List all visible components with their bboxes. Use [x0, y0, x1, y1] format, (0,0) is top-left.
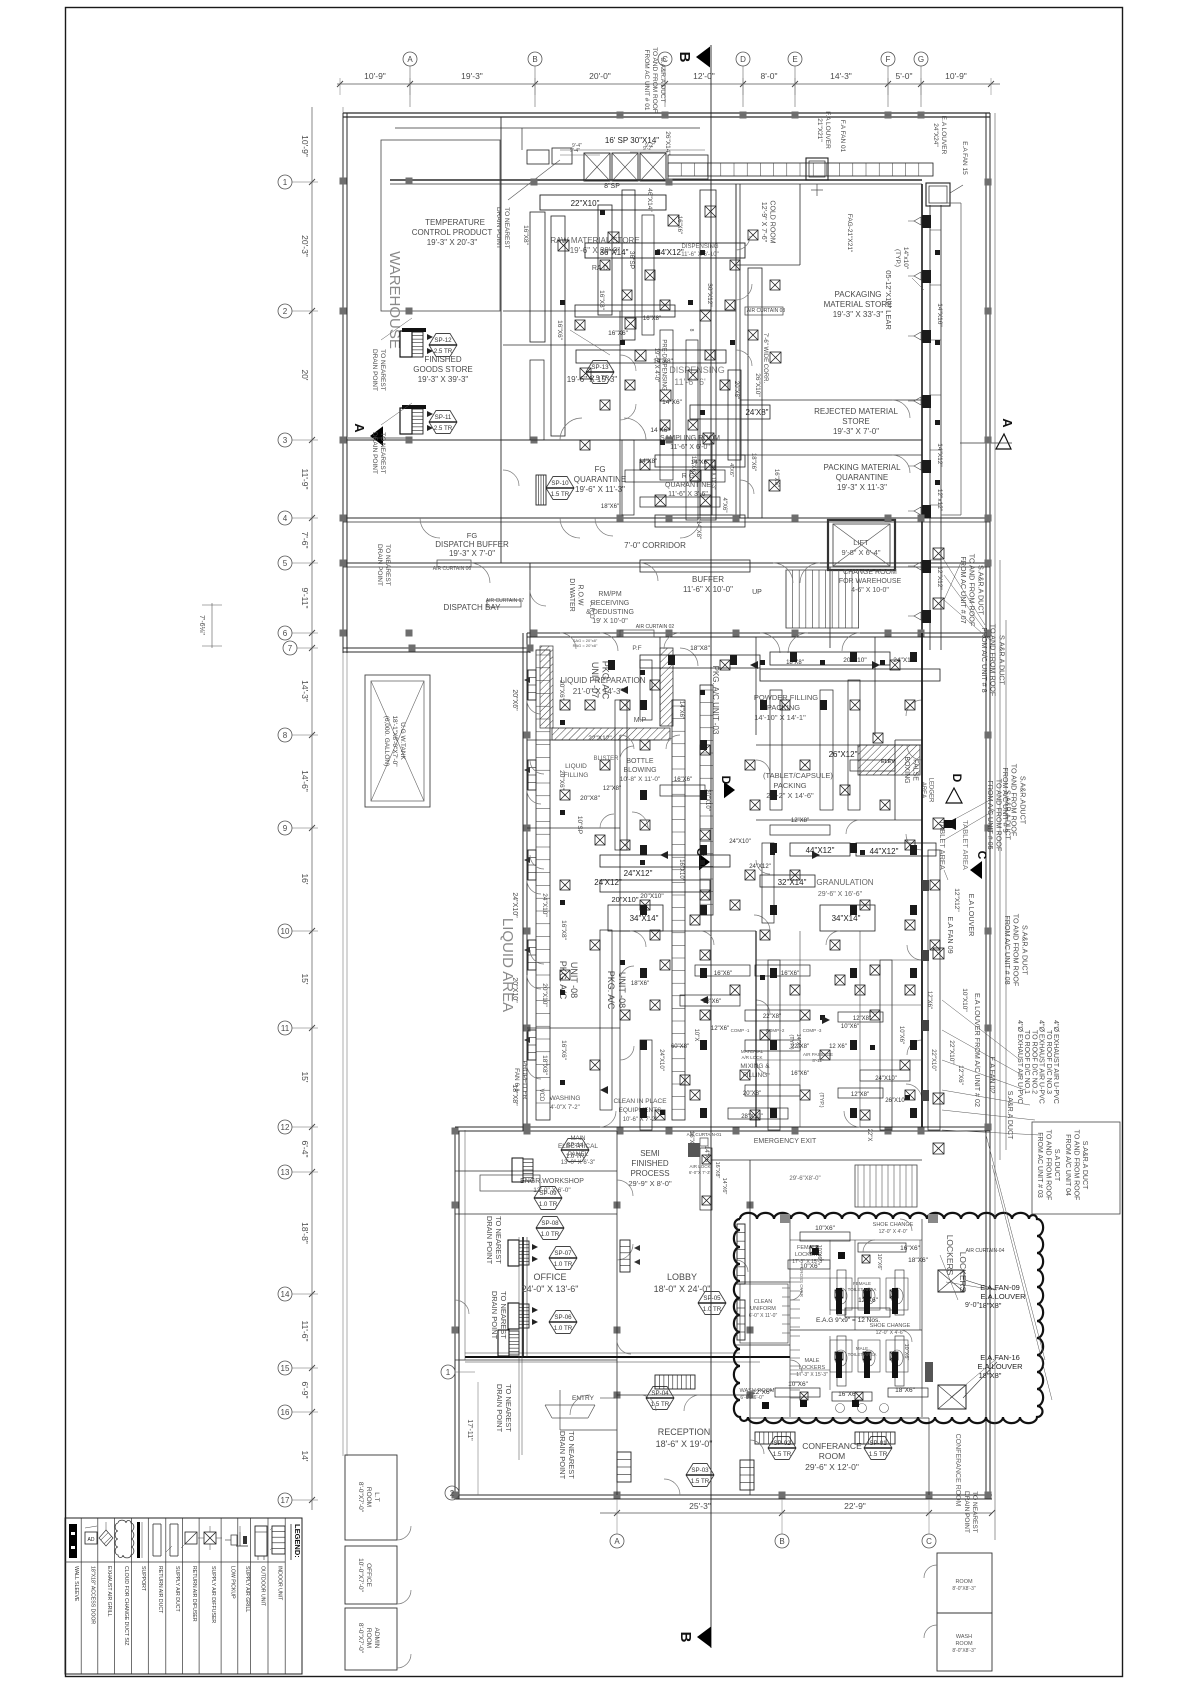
svg-text:26"X12": 26"X12" [829, 750, 858, 759]
fan coil unit west 1 [400, 331, 412, 357]
svg-text:(TYP.): (TYP.) [894, 249, 901, 267]
svg-text:25'-3": 25'-3" [689, 1501, 711, 1511]
black junction caps [608, 660, 615, 670]
section marker C left [699, 854, 710, 871]
svg-text:12"X8": 12"X8" [791, 818, 809, 824]
sp-12 tag [429, 334, 457, 357]
svg-text:ROOM: ROOM [365, 1487, 372, 1507]
svg-text:14': 14' [300, 1450, 310, 1461]
cold room walls [735, 184, 737, 265]
svg-text:S.A&R.A DUCT: S.A&R.A DUCT [1081, 1141, 1088, 1190]
svg-text:12"X6": 12"X6" [926, 991, 932, 1009]
svg-text:18"X8": 18"X8" [541, 1055, 548, 1075]
svg-text:12"X8": 12"X8" [603, 786, 621, 792]
svg-text:22"X12": 22"X12" [588, 735, 612, 742]
west grille arrows [524, 677, 530, 683]
east shaft boundary [960, 203, 962, 515]
svg-text:6: 6 [283, 629, 288, 638]
svg-text:TO AND FROM ROOF: TO AND FROM ROOF [1045, 1130, 1052, 1201]
svg-text:SP-12: SP-12 [434, 337, 452, 344]
middle door arcs [600, 633, 618, 651]
wall conference top [750, 1417, 929, 1419]
entry porch [559, 1390, 561, 1430]
svg-text:TOILET AREA: TOILET AREA [848, 1287, 877, 1292]
svg-text:15: 15 [281, 1364, 290, 1373]
svg-text:E.A FAN 15: E.A FAN 15 [961, 141, 968, 175]
svg-text:CONFERANCE: CONFERANCE [802, 1441, 862, 1451]
wash basins [836, 1404, 845, 1413]
svg-text:14"X12": 14"X12" [936, 443, 943, 467]
wall row12 liquid bottom [455, 1126, 990, 1128]
svg-text:VCD: VCD [538, 1089, 544, 1102]
svg-text:AIR CURTAIN-04: AIR CURTAIN-04 [966, 1248, 1005, 1254]
upper cluster extra ducts [598, 205, 612, 315]
entry canopy [545, 1404, 595, 1406]
wall row1 [390, 179, 922, 181]
svg-text:FOR WAREHOUSE: FOR WAREHOUSE [839, 578, 902, 585]
svg-text:18'-0" X 24'-0": 18'-0" X 24'-0" [654, 1284, 711, 1294]
section marker A left [370, 426, 383, 446]
svg-text:8'-0"X7'-0": 8'-0"X7'-0" [357, 1482, 364, 1513]
svg-text:6'-4": 6'-4" [300, 1141, 310, 1158]
upper cluster extra xboxes [600, 260, 610, 270]
svg-text:SP-11: SP-11 [435, 414, 452, 421]
section marker D left [724, 782, 735, 799]
svg-text:S.A&R.A DUCT: S.A&R.A DUCT [1003, 790, 1012, 841]
svg-text:16"X6": 16"X6" [773, 469, 779, 487]
svg-text:14"X8": 14"X8" [639, 459, 657, 465]
svg-text:22"X10": 22"X10" [948, 1040, 955, 1064]
svg-text:DRAIN POINT: DRAIN POINT [485, 1216, 494, 1265]
svg-text:1.5 TR: 1.5 TR [773, 1451, 792, 1458]
svg-text:E.A LOUVER: E.A LOUVER [967, 894, 976, 937]
svg-text:TO NEAREST: TO NEAREST [504, 1384, 513, 1432]
fa louver unit [806, 158, 828, 180]
east vertical duct [929, 205, 931, 650]
svg-text:TO AND FROM ROOF: TO AND FROM ROOF [995, 779, 1004, 852]
svg-text:SHOE CHANGE: SHOE CHANGE [873, 1222, 914, 1228]
svg-text:19'-3" X 11'-3": 19'-3" X 11'-3" [837, 483, 887, 492]
svg-text:8'-0": 8'-0" [761, 71, 778, 81]
stairs lower [855, 1165, 917, 1207]
svg-text:FROM AC UNIT # 01: FROM AC UNIT # 01 [643, 50, 650, 111]
wall row3 [343, 439, 922, 441]
svg-text:TO NEAREST: TO NEAREST [971, 1491, 978, 1532]
wall row6 liquid top [527, 632, 990, 634]
svg-text:RM/PM: RM/PM [598, 591, 622, 598]
bottom grid bubbles [616, 1499, 618, 1534]
svg-text:11'-6" 6': 11'-6" 6' [674, 377, 706, 387]
svg-text:A: A [1000, 418, 1015, 428]
svg-text:14"X16": 14"X16" [936, 303, 943, 327]
svg-text:RAW MATERIAL STORE: RAW MATERIAL STORE [550, 236, 639, 245]
change room wall [829, 567, 831, 648]
svg-text:14"X6": 14"X6" [721, 1178, 727, 1195]
small dim 7-6 left [211, 603, 213, 648]
svg-text:5'-0": 5'-0" [896, 71, 913, 81]
lt room [345, 1455, 397, 1540]
svg-text:SUPPLY AIR DIFFUSER: SUPPLY AIR DIFFUSER [210, 1566, 216, 1623]
legend box [65, 1518, 302, 1674]
svg-text:24"X10": 24"X10" [875, 1076, 897, 1082]
x dampers upper [558, 240, 569, 251]
fan coil unit corridor [536, 475, 546, 505]
svg-text:DRAIN POINT: DRAIN POINT [558, 1431, 567, 1480]
svg-text:26"X10": 26"X10" [885, 1098, 907, 1104]
svg-text:DI WATER: DI WATER [568, 578, 575, 611]
svg-text:4: 4 [283, 514, 288, 523]
lockers v ducts [837, 1270, 846, 1315]
svg-text:1.0 TR: 1.0 TR [539, 1201, 558, 1208]
svg-text:18"X6": 18"X6" [908, 1257, 928, 1264]
svg-text:20"X10": 20"X10" [541, 983, 548, 1007]
fan coil unit west 2 [400, 408, 412, 434]
svg-text:TO ROOF D/C NO.2: TO ROOF D/C NO.2 [1030, 1030, 1037, 1094]
svg-text:PRE-DISPENSING: PRE-DISPENSING [661, 339, 667, 391]
svg-text:18"X8": 18"X8" [979, 1371, 1002, 1380]
lower block extra arcs [617, 1180, 633, 1196]
svg-text:9'-11": 9'-11" [300, 587, 310, 608]
svg-text:7'-0" CORRIDOR: 7'-0" CORRIDOR [624, 541, 686, 550]
left boundary extension line [342, 107, 344, 1456]
svg-text:DRAIN POINT: DRAIN POINT [376, 544, 383, 586]
svg-text:17: 17 [281, 1496, 290, 1505]
sp14 sp09 tags [561, 1139, 589, 1162]
duct 24x8 [690, 405, 770, 419]
office block west wall [454, 1131, 456, 1499]
svg-text:8: 8 [283, 731, 288, 740]
reception fixtures [655, 1375, 695, 1389]
svg-text:SP-06: SP-06 [554, 1314, 572, 1321]
svg-text:24"X12": 24"X12" [624, 869, 653, 878]
svg-text:TO ROOF D/C NO.1: TO ROOF D/C NO.1 [1023, 1030, 1030, 1094]
svg-text:OUTDOOR UNIT: OUTDOOR UNIT [259, 1566, 265, 1607]
svg-text:FROM AC UNIT # 07: FROM AC UNIT # 07 [959, 556, 968, 623]
svg-text:24"X12": 24"X12" [749, 864, 771, 870]
duct into lockers [700, 1148, 712, 1210]
svg-text:F.A LOUVER: F.A LOUVER [824, 111, 831, 149]
svg-text:6'-9": 6'-9" [300, 1382, 310, 1399]
sp-13 tag [586, 361, 614, 384]
svg-text:4"X6": 4"X6" [721, 498, 727, 513]
hatched elevator [858, 745, 920, 775]
leader lines bottom right [985, 1131, 1045, 1360]
svg-text:SP-08: SP-08 [541, 1220, 559, 1227]
svg-text:ROOM: ROOM [955, 1641, 973, 1647]
svg-text:29'-6" X 16'-6": 29'-6" X 16'-6" [818, 891, 863, 898]
svg-text:11'-6" X 10'-0": 11'-6" X 10'-0" [683, 585, 733, 594]
svg-text:COLD ROOM: COLD ROOM [769, 200, 776, 243]
svg-text:16"X6": 16"X6" [556, 320, 563, 340]
h duct y655 extension [760, 669, 940, 681]
svg-text:20"X8": 20"X8" [743, 1091, 761, 1097]
svg-text:36"SP: 36"SP [628, 251, 635, 269]
svg-text:A: A [407, 55, 413, 64]
air curtain rects [437, 560, 471, 567]
svg-text:10"SP: 10"SP [576, 816, 583, 834]
raw store walls [503, 310, 736, 312]
svg-text:17'-3" X 15'-3": 17'-3" X 15'-3" [796, 1372, 828, 1378]
svg-text:A: A [614, 1537, 620, 1546]
svg-text:34'X12": 34'X12" [656, 248, 684, 257]
svg-text:12"x12": 12"x12" [936, 489, 943, 512]
svg-text:INDOOR UNIT: INDOOR UNIT [277, 1566, 283, 1601]
wall reception right x750 [749, 1160, 751, 1495]
svg-text:12'-0" X 4'-6": 12'-0" X 4'-6" [876, 1330, 905, 1336]
svg-text:ROOM: ROOM [365, 1628, 372, 1648]
svg-text:8'-0"X7'-0": 8'-0"X7'-0" [357, 1623, 364, 1654]
svg-text:SUPPLY AIR GRILL: SUPPLY AIR GRILL [244, 1566, 250, 1612]
svg-text:UNIFORM: UNIFORM [750, 1306, 776, 1312]
svg-text:CONTROL PRODUCT: CONTROL PRODUCT [412, 228, 493, 237]
svg-text:3: 3 [283, 436, 288, 445]
svg-text:24"X10": 24"X10" [541, 893, 548, 917]
x dampers lockers [810, 1246, 818, 1254]
temperature control room [381, 140, 500, 311]
duct 14x6 run [640, 560, 750, 572]
x dampers middle [650, 680, 660, 690]
svg-text:16"X8": 16"X8" [522, 225, 529, 245]
dark block entry [688, 1143, 700, 1157]
svg-text:4"Ø EXHAUST AIR U-PVC: 4"Ø EXHAUST AIR U-PVC [1038, 1020, 1045, 1104]
duct 36x14 run [585, 243, 745, 258]
svg-text:1.5 TR: 1.5 TR [691, 1478, 710, 1485]
svg-text:10"X6": 10"X6" [816, 1245, 822, 1262]
svg-text:AIR CURTAIN-01: AIR CURTAIN-01 [687, 1132, 722, 1137]
svg-text:20'-3": 20'-3" [300, 235, 310, 257]
svg-text:8'-11": 8'-11" [812, 1058, 824, 1063]
svg-text:11'-6" X 6'-0": 11'-6" X 6'-0" [670, 444, 710, 451]
svg-text:16"X6": 16"X6" [781, 971, 799, 977]
svg-text:DRAIN POINT: DRAIN POINT [495, 207, 502, 249]
svg-text:7'-6" WIDE CORR.: 7'-6" WIDE CORR. [762, 333, 768, 384]
svg-text:FG: FG [594, 465, 605, 474]
liquid area west wall [522, 633, 524, 1131]
toilet fixtures female [830, 1278, 852, 1310]
svg-text:DRAIN POINT: DRAIN POINT [371, 349, 378, 391]
svg-text:GRANULATION: GRANULATION [816, 878, 873, 887]
svg-text:SUPPORT: SUPPORT [140, 1566, 146, 1592]
svg-text:19'-3" X 7'-0": 19'-3" X 7'-0" [449, 549, 495, 558]
svg-text:16"X6": 16"X6" [560, 1040, 567, 1060]
wall y745 [756, 744, 922, 746]
svg-text:18"X6": 18"X6" [601, 504, 619, 510]
tablet area east wall thick [921, 633, 923, 1127]
svg-text:24"X10": 24"X10" [511, 892, 518, 918]
svg-text:PROCESS: PROCESS [630, 1169, 669, 1178]
svg-text:1: 1 [446, 1368, 451, 1377]
svg-text:19'-3" X 20'-3": 19'-3" X 20'-3" [427, 238, 478, 247]
svg-text:WALL SLEEVE: WALL SLEEVE [73, 1566, 79, 1602]
svg-text:S.A&R.ADUCT: S.A&R.ADUCT [1018, 776, 1027, 825]
svg-text:22"X8": 22"X8" [763, 1014, 781, 1020]
office piping [518, 1237, 520, 1460]
svg-text:MALE: MALE [805, 1358, 820, 1364]
section marker B bottom [697, 1627, 711, 1648]
svg-text:14"X6": 14"X6" [662, 399, 682, 406]
svg-text:12"X6": 12"X6" [711, 1026, 729, 1032]
svg-text:QUARANTINE: QUARANTINE [574, 475, 626, 484]
svg-text:16"X8": 16"X8" [560, 920, 567, 940]
svg-text:1.0 TR: 1.0 TR [541, 1231, 560, 1238]
svg-text:RAG = 20"x8": RAG = 20"x8" [573, 643, 598, 648]
svg-text:10"X10": 10"X10" [961, 988, 968, 1012]
bubble 1 2 west [441, 1365, 455, 1379]
svg-text:2.5 TR: 2.5 TR [591, 375, 610, 382]
svg-text:24'-0" X 13'-6": 24'-0" X 13'-6" [522, 1284, 579, 1294]
legend symbols [69, 1524, 77, 1558]
svg-text:PKG. A/C UNIT -03: PKG. A/C UNIT -03 [711, 666, 720, 735]
dispatch bay east wall [529, 563, 531, 653]
svg-text:44"X12": 44"X12" [806, 846, 835, 855]
wall elec room [455, 1170, 617, 1172]
svg-text:14'-3": 14'-3" [830, 71, 852, 81]
upper door arcs extra [420, 518, 440, 538]
wash room duct black bits [800, 1400, 807, 1407]
cloud top column markers [780, 1214, 790, 1223]
svg-text:L.T: L.T [373, 1492, 380, 1501]
svg-text:MIXING &: MIXING & [740, 1063, 770, 1070]
svg-text:10"X6": 10"X6" [841, 1024, 859, 1030]
svg-text:24'X12": 24'X12" [594, 878, 622, 887]
svg-text:SP-01: SP-01 [869, 1440, 887, 1447]
svg-text:E.A.LOUVER: E.A.LOUVER [977, 1362, 1023, 1371]
svg-text:STORE: STORE [842, 417, 869, 426]
svg-text:ROOM: ROOM [819, 1451, 845, 1461]
bottom dimension line [600, 1512, 992, 1514]
svg-text:21"X21": 21"X21" [816, 118, 823, 142]
svg-text:22"X: 22"X [866, 1129, 872, 1142]
clean uniform room [740, 1284, 788, 1343]
svg-text:CONFERANCE ROOM: CONFERANCE ROOM [954, 1434, 961, 1507]
svg-text:8: 8 [688, 329, 694, 332]
svg-text:AREA: AREA [920, 782, 926, 798]
svg-text:60"X8": 60"X8" [671, 1044, 689, 1050]
packaging rejected wall [740, 399, 922, 401]
svg-text:RETURN AIR DUCT: RETURN AIR DUCT [157, 1566, 163, 1614]
toilet fixtures male [830, 1340, 852, 1372]
svg-text:DRAIN POINT: DRAIN POINT [490, 1291, 499, 1340]
granulation ducts [790, 843, 850, 856]
svg-text:RECEIVING: RECEIVING [591, 600, 630, 607]
black unit bottom right [925, 1362, 933, 1382]
svg-text:20': 20' [300, 369, 310, 380]
svg-text:S.A&R.A DUCT: S.A&R.A DUCT [659, 57, 666, 102]
svg-text:MALE: MALE [856, 1346, 868, 1351]
svg-text:18'-6" X 19'-0": 18'-6" X 19'-0" [656, 1439, 713, 1449]
svg-text:RETURN AIR DIFUSER: RETURN AIR DIFUSER [191, 1566, 197, 1622]
svg-text:SP-07: SP-07 [554, 1250, 572, 1257]
svg-text:WASHING: WASHING [550, 1095, 581, 1102]
svg-text:15': 15' [300, 973, 310, 984]
wall office lobby x617 [616, 1131, 618, 1495]
svg-text:F.A FAN 01: F.A FAN 01 [839, 120, 846, 153]
svg-text:16"X8": 16"X8" [714, 1162, 720, 1179]
svg-text:9'-4": 9'-4" [572, 143, 582, 149]
svg-text:MAIN: MAIN [571, 1136, 586, 1142]
fan coils office west [508, 1240, 519, 1266]
svg-text:OFFICE: OFFICE [365, 1563, 372, 1587]
svg-text:E: E [792, 55, 797, 64]
lobby west wall grille [620, 1240, 630, 1272]
svg-text:DRAIN POINT: DRAIN POINT [371, 432, 378, 474]
svg-text:SEMI: SEMI [640, 1149, 660, 1158]
svg-text:PKG. A/C: PKG. A/C [606, 971, 616, 1010]
svg-text:SP-03: SP-03 [691, 1467, 709, 1474]
svg-text:G: G [918, 55, 924, 64]
svg-text:LIQUID: LIQUID [565, 763, 587, 770]
svg-text:E.A.FAN-09: E.A.FAN-09 [980, 1283, 1020, 1292]
svg-text:CLOUD FOR CHANGE DUCT SIZ: CLOUD FOR CHANGE DUCT SIZ [123, 1566, 129, 1645]
svg-text:1.5 TR: 1.5 TR [869, 1451, 888, 1458]
wall office bottom [455, 1359, 617, 1361]
svg-text:DRAIN POINT: DRAIN POINT [495, 1384, 504, 1433]
svg-text:11: 11 [281, 1024, 290, 1033]
outer wall east [985, 113, 987, 1499]
black duct risers in toilets [836, 1288, 842, 1314]
ea units right [938, 1270, 964, 1292]
svg-text:E.A.FAN-16: E.A.FAN-16 [980, 1353, 1020, 1362]
stairs upper [785, 570, 787, 628]
conference grilles [755, 1432, 795, 1444]
svg-text:UNIT -08: UNIT -08 [617, 972, 627, 1008]
svg-text:1.0 TR: 1.0 TR [554, 1261, 573, 1268]
svg-text:DISPATCH BAY: DISPATCH BAY [444, 603, 502, 612]
wall lobby reception [617, 1394, 750, 1396]
svg-text:18"X8": 18"X8" [511, 1084, 518, 1106]
svg-text:17'-11": 17'-11" [466, 1419, 473, 1441]
svg-text:19'-3" X 39'-3": 19'-3" X 39'-3" [418, 375, 469, 384]
svg-text:2.5 TR: 2.5 TR [434, 348, 453, 355]
right leader bundle upper [944, 560, 985, 625]
svg-text:UNIT -08: UNIT -08 [569, 962, 579, 998]
svg-text:18"X8": 18"X8" [979, 1301, 1002, 1310]
svg-text:14'-10" X 14'-1": 14'-10" X 14'-1" [754, 713, 806, 722]
svg-text:4"Ø EXHAUST AIR U-PVC: 4"Ø EXHAUST AIR U-PVC [1016, 1020, 1023, 1104]
svg-text:ENGR.WORKSHOP: ENGR.WORKSHOP [520, 1178, 584, 1185]
svg-text:18'-8": 18'-8" [300, 1222, 310, 1244]
shoe change door arcs [900, 1219, 912, 1231]
heavy duct vertical x524 [522, 1237, 524, 1357]
svg-text:20"X10": 20"X10" [511, 977, 518, 1003]
svg-text:12"X6": 12"X6" [957, 1065, 964, 1085]
svg-text:24"X24": 24"X24" [932, 123, 939, 147]
svg-text:22"X10": 22"X10" [571, 199, 600, 208]
svg-text:LEGEND:: LEGEND: [293, 1524, 302, 1558]
svg-text:FROM A/C UNIT 04: FROM A/C UNIT 04 [1064, 1134, 1071, 1196]
svg-text:SUPPLY AIR DUCT: SUPPLY AIR DUCT [174, 1566, 180, 1612]
svg-text:10"X6": 10"X6" [903, 1344, 909, 1361]
svg-text:TO AND FROM ROOF: TO AND FROM ROOF [1012, 914, 1021, 987]
svg-text:(TABLET/CAPSULE): (TABLET/CAPSULE) [763, 771, 833, 780]
right outside vertical lines [994, 113, 996, 1540]
svg-text:CHANGE ROOM: CHANGE ROOM [843, 569, 897, 576]
svg-text:GOODS STORE: GOODS STORE [413, 365, 472, 374]
svg-text:TO NEAREST: TO NEAREST [503, 207, 510, 248]
svg-text:12"X8": 12"X8" [853, 1016, 871, 1022]
svg-text:9'-8" X 6'-4": 9'-8" X 6'-4" [841, 548, 880, 557]
svg-text:TO NEAREST: TO NEAREST [499, 1291, 508, 1339]
outer wall north [343, 112, 990, 114]
svg-text:10'-0"X7'-0": 10'-0"X7'-0" [357, 1558, 364, 1593]
svg-text:16"X6": 16"X6" [674, 777, 692, 783]
svg-text:EXHAUST AIR GRILL: EXHAUST AIR GRILL [106, 1566, 112, 1617]
svg-text:TO NEAREST: TO NEAREST [379, 349, 386, 390]
svg-text:(TYP.): (TYP.) [818, 1092, 824, 1107]
right leaders [992, 1165, 1052, 1400]
svg-text:B: B [677, 1632, 694, 1643]
wall x875 powder [874, 637, 876, 735]
